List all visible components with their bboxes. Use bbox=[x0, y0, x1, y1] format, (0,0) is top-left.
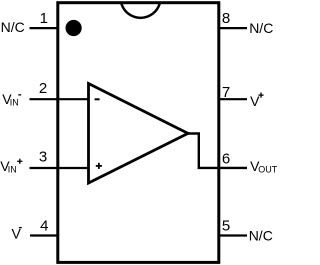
notch (pin-1 end indicator arc) bbox=[121, 4, 159, 18]
svg-text:6: 6 bbox=[222, 151, 230, 168]
op-amp inverting input symbol (minus) bbox=[95, 98, 100, 100]
wire pin 2 lead to inverting input bbox=[30, 98, 89, 100]
svg-text:N/C: N/C bbox=[249, 227, 273, 243]
package outline U1 (DIP-8 body) bbox=[58, 3, 219, 263]
wire pin 3 lead to non-inverting input bbox=[30, 167, 89, 169]
wire pin 4 lead bbox=[30, 234, 58, 236]
svg-text:IN: IN bbox=[8, 164, 17, 174]
label VOUT pin 6 bbox=[250, 158, 278, 174]
wire pin 1 lead bbox=[30, 27, 58, 29]
svg-text:3: 3 bbox=[39, 149, 47, 166]
svg-text:1: 1 bbox=[40, 10, 48, 27]
svg-text:5: 5 bbox=[222, 218, 230, 235]
op-amp triangle bbox=[89, 84, 189, 184]
op-amp non-inverting input symbol (plus) bbox=[96, 163, 102, 169]
svg-text:2: 2 bbox=[39, 80, 47, 97]
wire op-amp output to pin 6 lead bbox=[186, 134, 247, 168]
svg-text:7: 7 bbox=[222, 84, 230, 101]
svg-text:N/C: N/C bbox=[1, 19, 25, 35]
wire pin 8 lead bbox=[219, 27, 247, 29]
svg-text:IN: IN bbox=[10, 97, 19, 107]
label V+ pin 7 bbox=[250, 93, 264, 109]
svg-text:8: 8 bbox=[222, 10, 230, 27]
wire pin 7 lead bbox=[219, 98, 247, 100]
svg-text:N/C: N/C bbox=[249, 20, 273, 36]
wire pin 5 lead bbox=[219, 234, 247, 236]
label V- pin 4 bbox=[12, 226, 22, 242]
label VIN+ pin 3 bbox=[0, 158, 22, 174]
label VIN- pin 2 bbox=[2, 91, 21, 107]
svg-text:4: 4 bbox=[40, 218, 48, 235]
svg-text:OUT: OUT bbox=[258, 165, 278, 175]
pin-1 dot bbox=[66, 20, 82, 36]
